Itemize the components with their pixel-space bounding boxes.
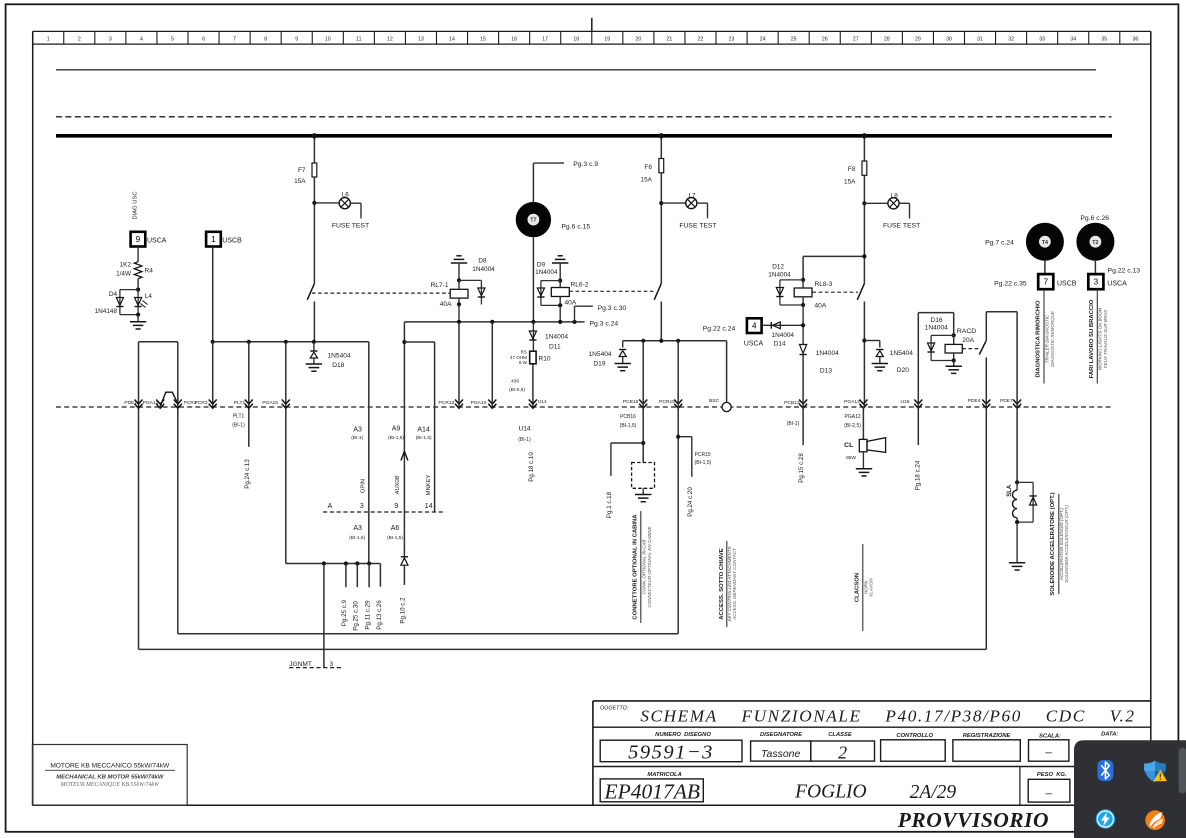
svg-text:ACCELERATOR SOLENOID (OPT.): ACCELERATOR SOLENOID (OPT.) [1059, 507, 1064, 581]
junction bus322 at PGA10 [490, 320, 494, 324]
svg-text:2: 2 [838, 743, 847, 763]
icon bluetooth [1097, 760, 1113, 781]
wire RL8-3 feed [803, 256, 864, 280]
svg-text:CONN. OPTIONAL IN CAB: CONN. OPTIONAL IN CAB [641, 540, 646, 595]
svg-text:RL7-1: RL7-1 [431, 282, 449, 289]
svg-text:1: 1 [211, 235, 216, 244]
junction RL7-1 bottom [457, 302, 461, 306]
label Pg.3 c.24 [590, 320, 619, 327]
svg-text:REGISTRAZIONE: REGISTRAZIONE [963, 733, 1012, 739]
svg-text:4: 4 [140, 37, 143, 43]
label A3 upper [351, 426, 363, 441]
label D8 [478, 258, 487, 265]
thin horizontal rail [56, 69, 1096, 71]
diode D8 branch [459, 280, 485, 304]
connector box 4 USCA [747, 318, 762, 333]
svg-text:9: 9 [394, 503, 398, 510]
label Pg.24 c.20 [687, 487, 694, 517]
svg-text:RS: RS [521, 350, 527, 355]
svg-text:1/4W: 1/4W [116, 271, 132, 278]
label PGA12 below [844, 414, 861, 429]
stamp PROVVISORIO [897, 808, 1049, 832]
label USCB (box 1) [222, 237, 242, 244]
pin PDE7 on connector bus [1000, 398, 1021, 408]
label L4 [145, 293, 153, 300]
connector A dashed line [323, 511, 443, 513]
connector box 3 USCA [1088, 274, 1103, 289]
svg-text:PROVVISORIO: PROVVISORIO [897, 808, 1049, 832]
svg-text:SLA: SLA [1007, 484, 1013, 497]
wire RL8-3 to D14 junction [802, 305, 804, 345]
svg-text:40A: 40A [565, 300, 577, 307]
icon defender shield warning [1144, 761, 1167, 783]
label F7 [298, 167, 306, 174]
label CLASSE [828, 732, 853, 738]
svg-text:1N4004: 1N4004 [772, 332, 795, 339]
svg-text:40A: 40A [815, 303, 827, 310]
svg-text:21: 21 [667, 37, 673, 43]
svg-text:FARI LAVORO SU BRACCIO: FARI LAVORO SU BRACCIO [1089, 299, 1095, 378]
wire T2 to box 3 [1094, 261, 1096, 274]
svg-text:USCB: USCB [1057, 281, 1077, 288]
label A3 lower [349, 525, 365, 541]
svg-text:FUSE TEST: FUSE TEST [679, 222, 716, 229]
svg-text:(BI-2,5): (BI-2,5) [844, 423, 861, 429]
relay RL7-1 coil [450, 280, 468, 304]
connector box 7 USCB [1038, 274, 1053, 289]
main connector dashed bus [56, 406, 1112, 408]
svg-text:(BI-1,5): (BI-1,5) [695, 460, 712, 466]
junction bus322 at RL7-1 [457, 320, 461, 324]
label REGISTRAZIONE [963, 733, 1012, 739]
svg-text:23: 23 [729, 37, 735, 43]
switch contact F6 [654, 284, 661, 300]
svg-text:(BI-1): (BI-1) [351, 435, 363, 441]
label Pg.11 c.29 [364, 600, 371, 630]
svg-text:15A: 15A [641, 176, 653, 183]
wire T7 to bus [532, 237, 534, 322]
label NUMERO DISEGNO [655, 732, 711, 738]
svg-text:T2: T2 [1092, 240, 1098, 246]
svg-text:33: 33 [1039, 37, 1045, 43]
svg-text:1N4004: 1N4004 [925, 325, 948, 332]
label SCALA [1039, 734, 1061, 740]
svg-text:85W: 85W [846, 455, 856, 461]
svg-text:40A: 40A [440, 301, 452, 308]
label wire 436 [511, 379, 519, 385]
pin PCR12 on connector bus [439, 400, 463, 409]
wire distribution row [286, 563, 381, 565]
inner frame left border [32, 31, 34, 805]
label D4 [109, 291, 118, 298]
pin PDE4 on connector bus [968, 398, 991, 408]
wire PCR15 right branch [678, 437, 692, 477]
wire PGA12 below bus [862, 407, 864, 439]
wire JGNMT column [323, 564, 325, 668]
svg-text:DISEGNATORE: DISEGNATORE [760, 732, 803, 738]
diode D19 to ground [615, 341, 631, 371]
svg-text:13: 13 [418, 37, 424, 43]
svg-text:PGA12: PGA12 [844, 399, 860, 405]
label JGNMT pin 3 [330, 661, 334, 668]
pin PCR3 on connector bus [194, 400, 216, 409]
svg-text:5: 5 [171, 37, 174, 43]
value classe 2 [838, 743, 847, 763]
svg-text:20: 20 [635, 37, 641, 43]
label MNKEY [426, 475, 432, 496]
stub Pg.3 c.30 [575, 306, 593, 322]
grommet T7 [516, 202, 551, 237]
junction D4/L4 bottom [136, 313, 140, 317]
label R10 [539, 356, 551, 363]
svg-text:20A: 20A [962, 337, 974, 344]
svg-text:4: 4 [752, 322, 757, 331]
wire RL6-2 to Pg3c24 bus [559, 305, 561, 322]
label D20 1N5404 [890, 350, 913, 357]
junction bus341 at USCB [211, 340, 215, 344]
fuse F6 [659, 159, 664, 173]
text MECHANICAL KB MOTOR [56, 775, 164, 781]
diode D14 [762, 322, 803, 329]
main supply bus (thick) [56, 134, 1112, 138]
label CL 85W [846, 455, 856, 461]
wire PGA13 jumper hump [160, 392, 178, 406]
wire PCR2 column [177, 342, 179, 634]
svg-text:31: 31 [977, 37, 983, 43]
svg-text:35: 35 [1101, 37, 1107, 43]
pin U16 on connector bus [901, 399, 923, 408]
label Pg.22 c.13 [1108, 267, 1141, 274]
svg-text:Pg.3 c.9: Pg.3 c.9 [573, 161, 598, 168]
svg-text:3: 3 [1094, 278, 1099, 287]
svg-text:BSC: BSC [709, 398, 720, 404]
svg-text:RACD: RACD [957, 328, 976, 335]
tray popup side tab [1179, 748, 1186, 794]
svg-text:PCR12: PCR12 [439, 400, 455, 406]
svg-text:29: 29 [915, 37, 921, 43]
junction L6 tap [312, 201, 316, 205]
wire box1 to bus341 [212, 247, 214, 342]
inner frame bottom border [33, 804, 1151, 806]
label D12 [772, 263, 784, 270]
mechanical link dashed RACD [962, 348, 980, 350]
svg-text:PDE1: PDE1 [124, 400, 137, 406]
svg-text:CLASSE: CLASSE [828, 732, 853, 738]
svg-text:14: 14 [425, 503, 433, 510]
svg-text:MATRICOLA: MATRICOLA [647, 772, 681, 778]
wire box9 to R4 [137, 247, 139, 262]
title block grid [593, 701, 1151, 805]
lamp L8 [888, 198, 899, 209]
svg-text:27: 27 [853, 37, 859, 43]
junction F8 at D20 [862, 338, 866, 342]
label U14 below [518, 426, 531, 443]
junction RL7-1 top [457, 278, 461, 282]
svg-text:EP4017AB: EP4017AB [604, 780, 701, 804]
svg-text:(BI-1,5): (BI-1,5) [387, 535, 403, 541]
label wire 436 gauge [509, 387, 525, 393]
label GPIN [360, 479, 366, 493]
junction RACD top [952, 333, 956, 337]
svg-text:TRAILER DIAGNOSTIC: TRAILER DIAGNOSTIC [1044, 314, 1049, 363]
junction on supply bus at F7 [312, 133, 317, 138]
diode D4 branch [116, 290, 138, 315]
svg-text:436: 436 [511, 379, 519, 385]
label D9 [537, 262, 546, 269]
wire USCB to PCR3 pin [212, 342, 214, 407]
svg-text:2A/29: 2A/29 [910, 782, 957, 803]
svg-text:Pg.25 c.9: Pg.25 c.9 [341, 599, 348, 626]
stub Pg.25 c.9 [345, 564, 347, 588]
svg-text:D14: D14 [774, 341, 786, 348]
junction RL6-2 top [558, 279, 562, 283]
pin PDE1 on connector bus [124, 400, 142, 409]
label D11 1N4004 [545, 334, 568, 341]
label F8 [848, 166, 856, 173]
svg-text:−: − [1045, 747, 1053, 762]
wire RL7-1 to Pg3c24 bus [458, 304, 460, 322]
wire Pg.3 c.9 stub [533, 163, 564, 202]
wire PCR15 column [677, 341, 679, 634]
lamp L6 [339, 198, 350, 209]
engine info box [32, 745, 187, 806]
svg-text:PGA12: PGA12 [845, 414, 861, 420]
junction SLA bottom [1015, 520, 1019, 524]
label DISEGNATORE [760, 732, 803, 738]
junction D4/L4 top [136, 288, 140, 292]
label D19 1N5404 [588, 351, 611, 358]
svg-text:SCALA:: SCALA: [1039, 734, 1061, 740]
svg-text:−: − [1045, 788, 1053, 803]
resistor R10 [530, 351, 536, 364]
wire PGA10 column [491, 322, 493, 407]
svg-text:PCB16: PCB16 [620, 414, 636, 420]
wire to lamp L8 [864, 202, 888, 204]
label L7 [688, 193, 696, 200]
box peso [1028, 779, 1070, 802]
stub Pg.13 c.26 [379, 564, 381, 587]
wire F7 below switch [313, 302, 315, 342]
junction busD19 at F6 [659, 339, 663, 343]
svg-text:28: 28 [884, 37, 890, 43]
svg-text:8: 8 [264, 37, 267, 43]
label FUSE TEST (L8) [883, 222, 920, 229]
svg-text:DATA:: DATA: [1101, 731, 1118, 737]
svg-text:Pg.24 c.20: Pg.24 c.20 [687, 487, 694, 517]
svg-text:PCR15: PCR15 [659, 399, 675, 405]
wire U16 column [918, 313, 953, 407]
junction bus322 at RL6-2 [558, 320, 562, 324]
junction PCR15 branch [676, 435, 680, 439]
svg-text:DIAG USC: DIAG USC [133, 191, 139, 219]
junction RL6-2 bottom [558, 303, 562, 307]
svg-text:2: 2 [78, 37, 81, 43]
svg-text:USCA: USCA [147, 237, 167, 244]
box controllo [881, 740, 946, 761]
label FUSE TEST (L7) [679, 222, 716, 229]
wire R4 to LED [137, 279, 139, 290]
label FOGLIO [794, 782, 867, 803]
svg-text:Pg.18 c.10: Pg.18 c.10 [528, 452, 535, 482]
svg-text:D4: D4 [109, 291, 118, 298]
svg-text:L6: L6 [342, 192, 350, 199]
wire PDE1 to PDE4 (y=649.4) [139, 648, 987, 650]
label OGGETTO [600, 706, 629, 712]
svg-text:25: 25 [791, 37, 797, 43]
pin PCR15 on connector bus [659, 399, 682, 408]
junction A9/A14 branch [402, 340, 406, 344]
label RL7-1 [431, 282, 449, 289]
junction RACD bottom [952, 358, 956, 362]
diode D18 to ground [306, 342, 322, 371]
label L8 [891, 193, 899, 200]
label PCR15 branch [695, 452, 712, 466]
pin BSC open circle [709, 398, 731, 412]
label F6 [644, 164, 652, 171]
wire F8 to switch [863, 175, 865, 283]
svg-text:ACCESS. SOTTO CHIAVE: ACCESS. SOTTO CHIAVE [719, 548, 725, 620]
mechanical link dashed RL6-2 [569, 290, 655, 292]
svg-text:A6: A6 [391, 525, 400, 532]
wire PDE1 column [138, 342, 140, 650]
inner frame right border [1150, 31, 1152, 805]
label Pg.3 c.9 [573, 161, 598, 168]
svg-text:L8: L8 [891, 193, 899, 200]
svg-text:(BI-1): (BI-1) [787, 421, 800, 427]
label Pg.10 c.2 [400, 597, 407, 624]
svg-text:Pg.11 c.29: Pg.11 c.29 [364, 600, 371, 630]
label pin 14 [425, 503, 433, 510]
icon avast [1145, 810, 1165, 830]
svg-text:(BI-1,5): (BI-1,5) [349, 535, 365, 541]
box matricola [600, 779, 703, 802]
wire PDE4 column [985, 358, 987, 650]
svg-text:RL8-3: RL8-3 [815, 281, 833, 288]
svg-text:59591−3: 59591−3 [628, 741, 714, 763]
switch contact RACD [979, 341, 986, 354]
connector box 1 USCB [206, 232, 221, 247]
label D19 [593, 360, 605, 367]
svg-text:A3: A3 [353, 426, 362, 433]
mechanical link dashed RL7-1 [312, 292, 450, 294]
optional connector dashed box [632, 463, 655, 489]
wire PDE4/PDE7 top [986, 311, 1017, 313]
svg-text:1K2: 1K2 [120, 262, 132, 269]
label CL [844, 442, 853, 449]
label Pg.25 c.30 [353, 601, 360, 631]
svg-text:CONNETTORE OPTIONAL IN CABINA: CONNETTORE OPTIONAL IN CABINA [632, 514, 638, 620]
text MOTORE KB MECCANICO [45, 763, 175, 771]
label USCB (box 7) [1057, 281, 1077, 288]
svg-text:SCHEMA FUNZIONALE P40.17/P38: SCHEMA FUNZIONALE P40.17/P38/P60 CDC V.2 [640, 707, 1135, 726]
junction on supply bus at F8 [862, 133, 867, 138]
label D9 1N4004 [535, 269, 558, 276]
label F7 15A [294, 178, 306, 185]
diode D11 [529, 322, 536, 350]
svg-text:26: 26 [822, 37, 828, 43]
title SCHEMA FUNZIONALE [640, 707, 1135, 726]
svg-text:PGA10: PGA10 [471, 400, 487, 406]
wire bus D19 row [623, 340, 727, 342]
svg-text:D9: D9 [537, 262, 546, 269]
svg-text:A14: A14 [417, 426, 430, 433]
svg-text:A: A [328, 503, 333, 510]
pin U14 on connector bus [529, 399, 547, 408]
label PLT1 below [232, 413, 245, 428]
label D4 1N4148 [95, 308, 118, 315]
svg-text:KEY CONTROLLED ATTACHMENTS: KEY CONTROLLED ATTACHMENTS [727, 546, 732, 621]
pin PCB16 on connector bus [623, 399, 647, 408]
wire PCR12 column [458, 322, 460, 407]
pin PGA13 on connector bus [143, 400, 165, 409]
wire PCB16 left branch [611, 443, 643, 476]
dashed horizontal rail [56, 116, 1112, 118]
label D12 1N4004 [768, 272, 791, 279]
tray popup panel [1074, 740, 1186, 838]
label F6 15A [641, 176, 653, 183]
svg-text:9: 9 [136, 235, 141, 244]
svg-text:U14: U14 [518, 426, 530, 433]
connector JGNMT dashed line [289, 667, 343, 669]
svg-text:7: 7 [1043, 278, 1048, 287]
label F8 15A [844, 179, 856, 186]
wire loop top [139, 341, 178, 343]
LED L4 [135, 290, 148, 315]
svg-text:Pg.24 c.13: Pg.24 c.13 [244, 459, 251, 489]
label RL6-2 40A [565, 300, 577, 307]
pin PGA12 on connector bus [844, 399, 867, 408]
svg-text:1N5404: 1N5404 [588, 351, 611, 358]
label 1K2 [120, 262, 132, 269]
label D18 1N5404 [328, 352, 351, 359]
fuse F8 [862, 161, 867, 175]
svg-text:MOTORE KB MECCANICO 55kW/74kW: MOTORE KB MECCANICO 55kW/74kW [50, 763, 170, 770]
wire to lamp L7 [661, 202, 685, 204]
label RS 47 OHM 5W [510, 350, 528, 366]
value EP4017AB [604, 780, 701, 804]
wire F8 column upper [863, 137, 865, 161]
pin PCB13 on connector bus [784, 400, 807, 409]
label Pg.22 c.24 [703, 326, 736, 333]
svg-text:10: 10 [325, 37, 331, 43]
svg-text:D13: D13 [820, 368, 832, 375]
diode D9 branch [537, 281, 560, 306]
wire PDE4 upper [985, 312, 987, 341]
svg-text:WORKING LIGHTS ON BOOM: WORKING LIGHTS ON BOOM [1098, 308, 1103, 371]
svg-text:U14: U14 [538, 399, 547, 405]
text DIAGNOSTICA RIMORCHIO [1035, 289, 1054, 383]
svg-text:19: 19 [604, 37, 610, 43]
svg-text:SOLENOIDE ACCELERATORE (OPT.): SOLENOIDE ACCELERATORE (OPT.) [1050, 492, 1056, 595]
label Pg.18 c.24 [915, 460, 922, 490]
svg-text:SOLENOIDE ACCELERATEUR (OPT.): SOLENOIDE ACCELERATEUR (OPT.) [1064, 505, 1069, 583]
svg-text:1N4004: 1N4004 [768, 272, 791, 279]
label Pg.6 c.15 [561, 223, 590, 230]
svg-text:Pg.1 c.18: Pg.1 c.18 [606, 491, 613, 518]
svg-text:R4: R4 [145, 268, 154, 275]
svg-text:GPIN: GPIN [360, 479, 366, 493]
label USCA (box 9) [147, 237, 167, 244]
svg-text:16: 16 [511, 37, 517, 43]
label Pg.3 c.30 [598, 305, 627, 312]
wire PGA15 column [285, 342, 287, 564]
grommet T4 [1026, 223, 1064, 261]
svg-text:FOGLIO: FOGLIO [794, 782, 867, 803]
wire F8 below switch [863, 302, 865, 407]
svg-text:Pg.15 c.28: Pg.15 c.28 [798, 453, 805, 483]
label D13 1N4004 [816, 350, 839, 357]
junction row at Pg25c9 [344, 561, 348, 565]
